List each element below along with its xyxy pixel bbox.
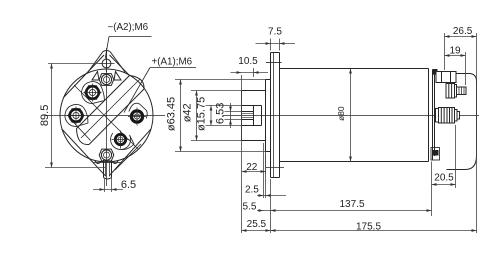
left view: vertical centerline (106, 48, 108, 186)
end plate line 2 (434, 74, 436, 156)
flange plate back face (279, 53, 281, 178)
dim 6.5 extension lines (104, 178, 106, 192)
diagonal centerline (74, 85, 139, 150)
dia 63.45 dim line (180, 80, 182, 152)
svg-text:175.5: 175.5 (356, 222, 381, 233)
svg-text:7.5: 7.5 (268, 26, 282, 37)
body bottom edge (280, 161, 429, 163)
terminal stud A2 top circle (102, 59, 111, 68)
bolt B5 lower-right ring (115, 134, 125, 144)
dim 20.5 right extension (455, 125, 457, 188)
svg-text:10.5: 10.5 (238, 56, 258, 67)
diagonal stripe lower edge (89, 89, 144, 145)
right view: main axis centerline (223, 115, 480, 117)
middle terminal stud on axis (436, 109, 439, 123)
spigot d63.45 front face (265, 80, 267, 152)
svg-text:ø63.45: ø63.45 (165, 97, 177, 131)
dim 5.5/137.5 extensions (270, 179, 272, 233)
svg-text:+(A1);M6: +(A1);M6 (152, 56, 193, 67)
left view: horizontal centerline (45, 115, 165, 117)
svg-text:5.5: 5.5 (243, 202, 257, 213)
end plate line 1 (432, 70, 434, 161)
flange rim inner line SW (71, 119, 91, 141)
svg-text:20.5: 20.5 (434, 172, 454, 183)
dia 80 dim line (350, 69, 352, 162)
svg-text:22: 22 (246, 162, 258, 173)
dim 6.53 extensions (225, 111, 242, 113)
svg-text:137.5: 137.5 (339, 199, 364, 210)
svg-text:26.5: 26.5 (453, 26, 473, 37)
bolt B2 hex (85, 86, 101, 100)
left view: outer circle (motor body d80) (60, 69, 153, 162)
d42 top edge (242, 90, 266, 92)
bore end vertical (261, 106, 263, 126)
bore d15.75 bottom edge (242, 125, 262, 127)
flange plate front face (270, 53, 272, 178)
slot 6.53 top edge (242, 111, 254, 113)
dim 5.5 + 137.5 line (257, 210, 432, 212)
dim 2.5 line (257, 195, 286, 197)
nut B1 below A2 (99, 74, 114, 86)
bottom small bolt (432, 150, 439, 156)
body right end (428, 69, 430, 162)
upper terminal stud (446, 84, 455, 99)
spigot top edge (266, 79, 271, 81)
bolt B3 hex (68, 109, 84, 123)
d42 bottom edge (242, 140, 266, 142)
dim 19 line (445, 55, 466, 57)
flange diamond SW edge (62, 129, 106, 176)
dim 22 line (242, 171, 266, 173)
slot end vertical (253, 106, 255, 126)
dia 63.45 extensions (175, 79, 266, 81)
spigot bottom edge (266, 151, 271, 153)
tab upper crossing line (266, 62, 282, 64)
label A1 leader (124, 68, 150, 113)
dim 89.5 extension lines (48, 63, 102, 65)
dia 15.75 extensions (206, 105, 242, 107)
svg-text:6.53: 6.53 (214, 103, 226, 124)
svg-text:89.5: 89.5 (39, 105, 51, 126)
svg-text:25.5: 25.5 (247, 219, 267, 230)
bolt B4 right (A1 terminal) ring (131, 111, 142, 122)
slot thread lines (242, 113, 254, 115)
dim 7.5 line (256, 43, 296, 45)
dia 42 extensions (191, 90, 242, 92)
stripe upper-right end cap (130, 76, 145, 90)
flange rim inner line SE (115, 144, 141, 170)
dim 10.5 right extension (253, 68, 255, 77)
dim 20.5 line (432, 184, 456, 186)
top black square (433, 69, 438, 75)
nut B6 bottom (99, 149, 114, 161)
dim 2.5 extensions (263, 143, 265, 198)
stripe midline (81, 80, 140, 139)
dim 26.5/19 left extension (444, 33, 446, 70)
flange tab top edge (271, 52, 280, 54)
dim 6.5 line (93, 189, 123, 191)
svg-text:19: 19 (449, 45, 461, 56)
dim 10.5 long extension at shaft end (241, 75, 243, 233)
svg-text:ø42: ø42 (182, 103, 194, 122)
body top edge (280, 68, 429, 70)
label A1 underline (150, 67, 196, 69)
dim 10.5 line (231, 72, 269, 74)
flange diamond NW edge (64, 55, 105, 98)
flange diamond SE edge (109, 129, 151, 176)
dim 25.5 + 175.5 line (242, 230, 477, 232)
dim 22 right extension (265, 152, 267, 175)
dim 6.53 line (230, 103, 232, 128)
bottom stud (103, 160, 105, 178)
dia 42 dim line (196, 91, 198, 141)
stripe lower-left end cap (77, 129, 90, 145)
label A2 underline (109, 36, 152, 38)
top ear inner notches (92, 72, 121, 81)
bolt B3 left ring (70, 109, 83, 122)
flange diamond NE edge (110, 55, 130, 76)
dia 15.75 dim line (210, 106, 212, 126)
top ear outline (88, 51, 125, 73)
svg-text:ø15.75: ø15.75 (195, 97, 207, 131)
dim 19 right extension (465, 52, 467, 85)
dim 26.5 line (445, 36, 477, 38)
svg-text:−(A2);M6: −(A2);M6 (108, 22, 149, 33)
flange bottom edge line near B6 (93, 162, 121, 164)
svg-text:6.5: 6.5 (121, 179, 136, 191)
svg-text:ø80: ø80 (336, 106, 346, 121)
tab lower crossing line (266, 167, 284, 169)
flange plate inner line (273, 53, 275, 178)
right extension 175.5/26.5 (476, 33, 478, 233)
battery strap (436, 72, 456, 83)
rear bracket outline (438, 74, 477, 170)
label A2 leader (105, 37, 109, 59)
slot 6.53 bottom edge (242, 119, 254, 121)
plunger front face (d42 disc) (241, 91, 243, 141)
flange tab bottom edge (271, 177, 280, 179)
dim 7.5 extensions (270, 39, 272, 51)
dim 89.5 line (51, 64, 53, 168)
svg-text:2.5: 2.5 (245, 184, 259, 195)
bottom ear inner notches (95, 161, 118, 164)
bore d15.75 top edge (242, 105, 262, 107)
bolt B2 upper-left ring (86, 86, 99, 99)
arrowheads (50, 64, 53, 69)
diagonal stripe upper edge (77, 76, 130, 129)
